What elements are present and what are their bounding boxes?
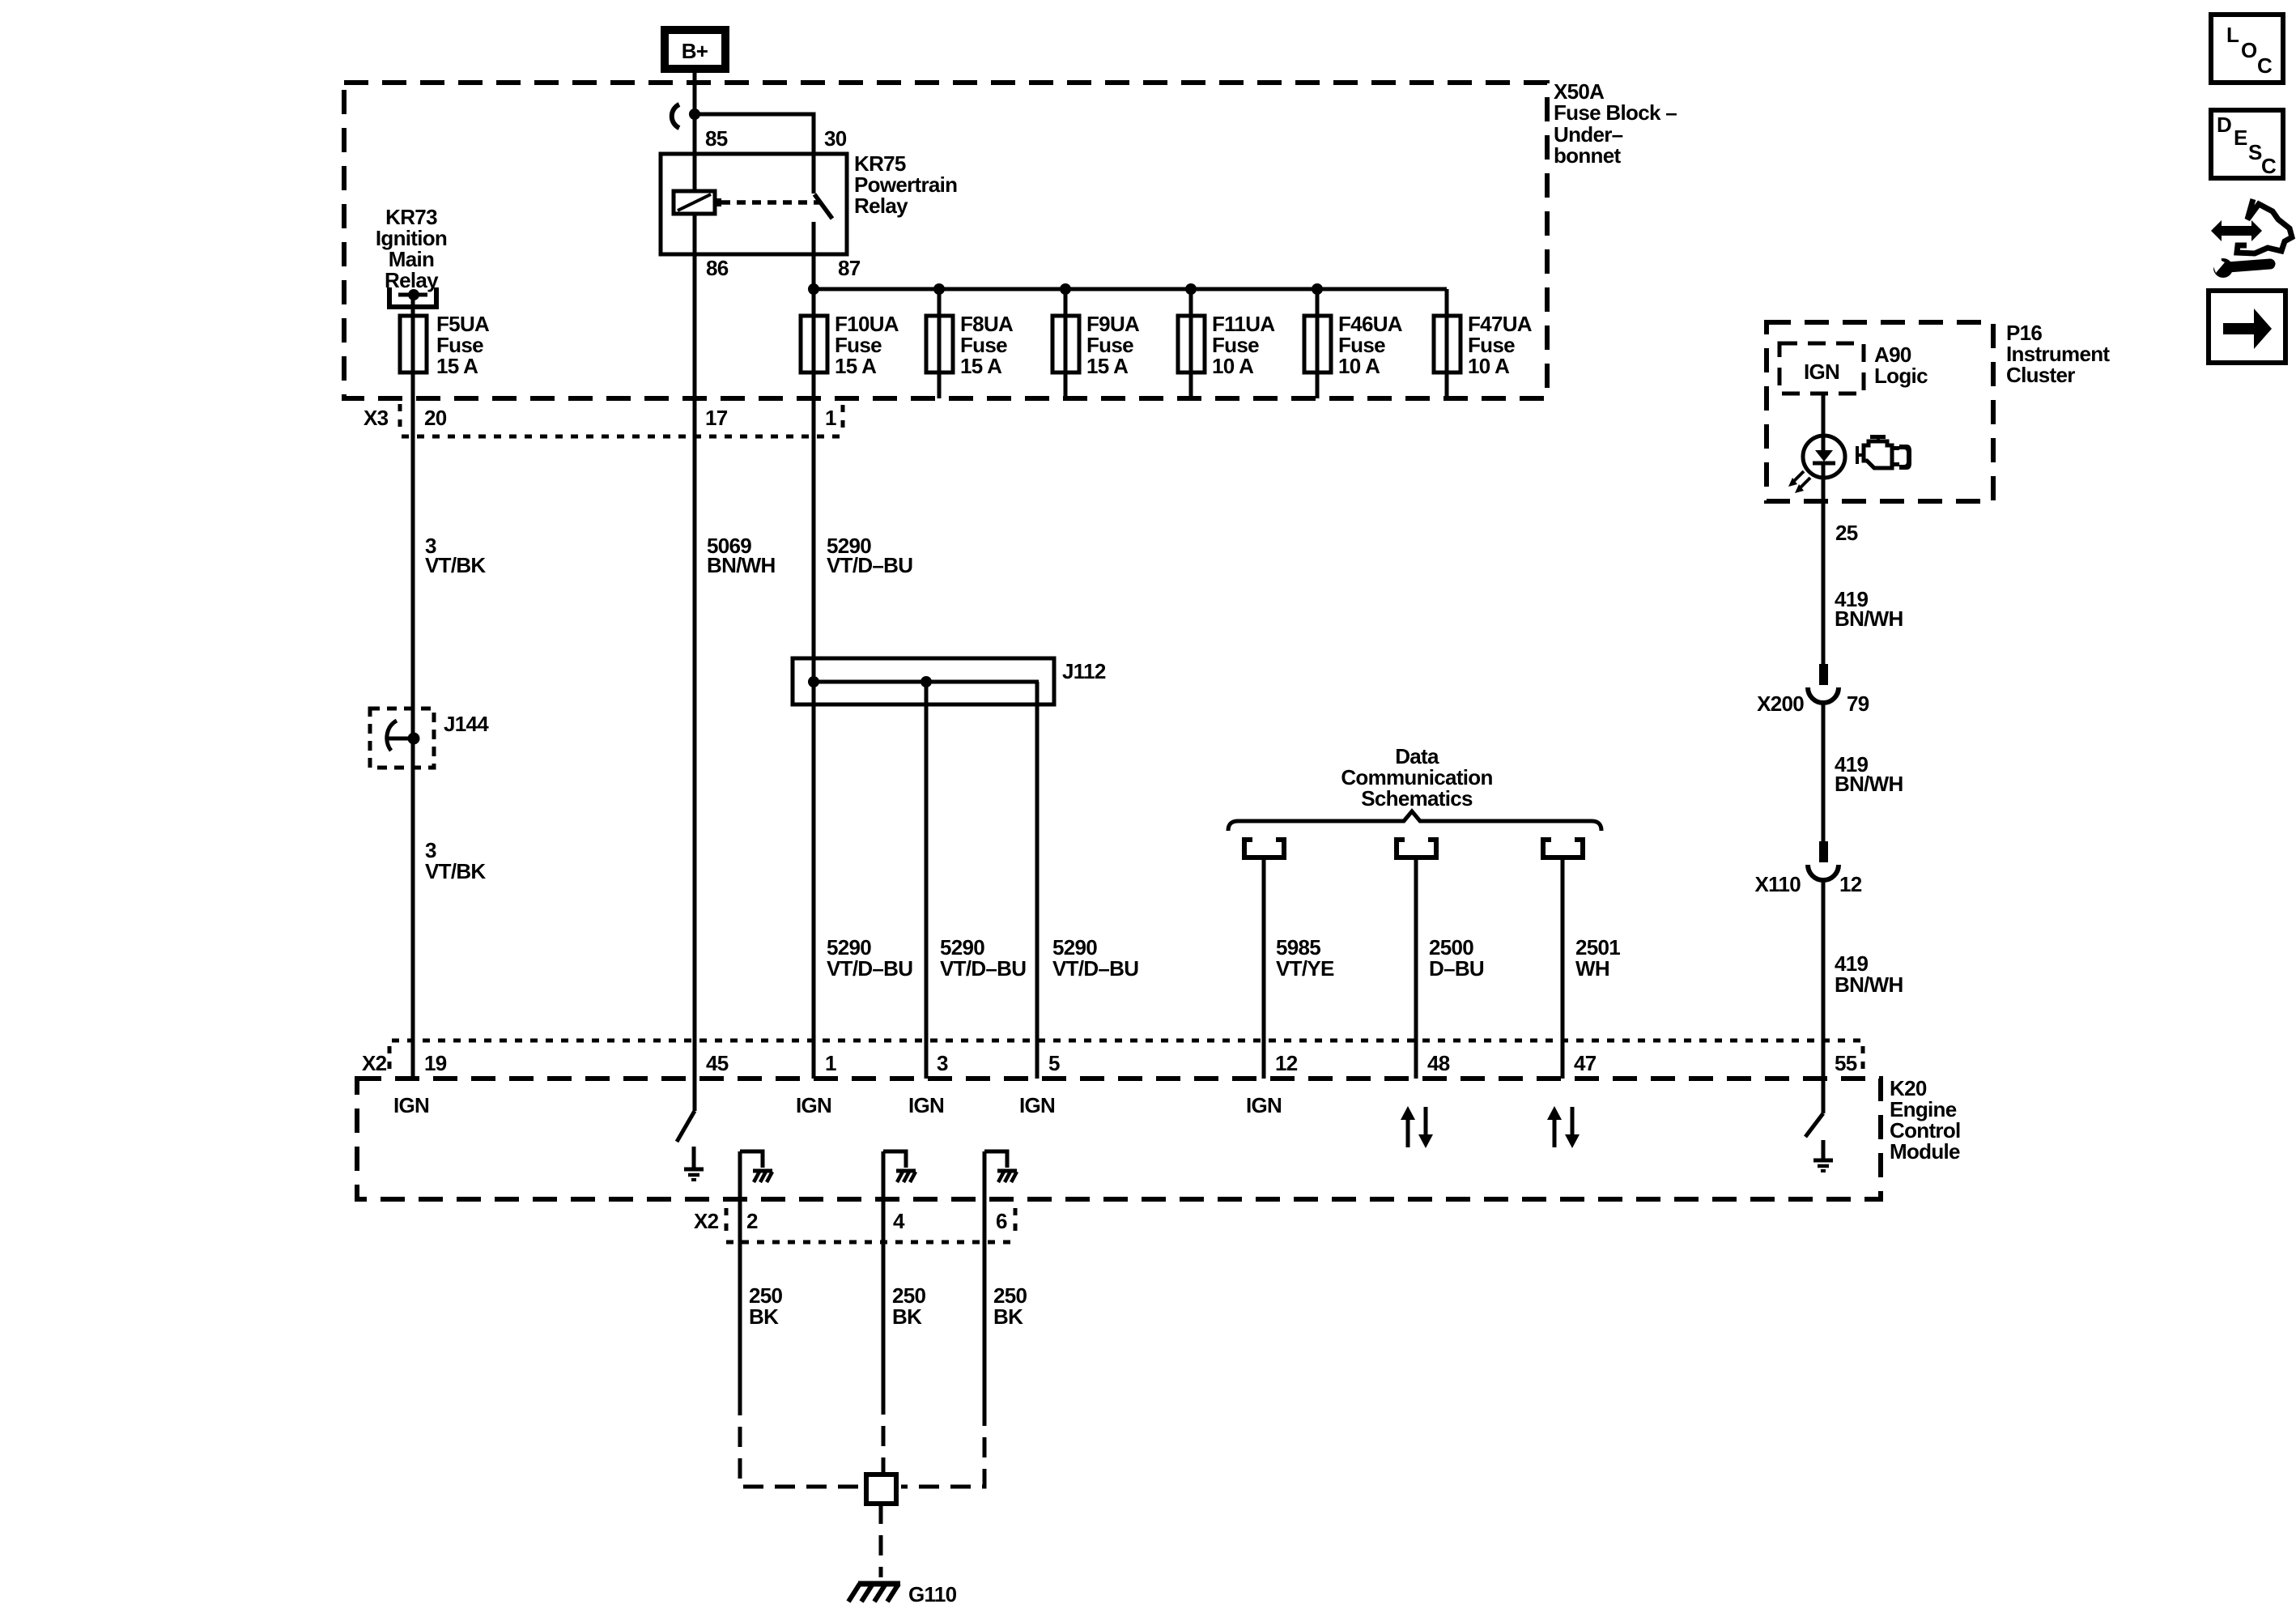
brace for data communication schematics xyxy=(1228,811,1601,831)
ground G110 xyxy=(848,1584,900,1602)
svg-text:VT/D–BU: VT/D–BU xyxy=(827,553,912,577)
engine icon (MIL) xyxy=(1856,435,1911,470)
label K20 Engine Control Module xyxy=(1890,1076,1961,1164)
dashed ground run pin4 xyxy=(882,1394,886,1472)
svg-text:C: C xyxy=(2261,154,2277,178)
wire KR73 to fuse F5UA and down to pin 19 xyxy=(411,295,415,1079)
LOC icon box xyxy=(2211,15,2283,83)
DESC icon box xyxy=(2211,110,2283,178)
svg-text:L: L xyxy=(2226,23,2239,47)
svg-text:Fuse Block –: Fuse Block – xyxy=(1554,100,1677,125)
svg-text:VT/BK: VT/BK xyxy=(425,553,486,577)
bidirectional data arrows pin 48 xyxy=(1401,1106,1433,1148)
svg-text:VT/D–BU: VT/D–BU xyxy=(1052,956,1138,981)
svg-text:10 A: 10 A xyxy=(1468,354,1510,378)
svg-text:20: 20 xyxy=(424,406,447,430)
svg-text:BN/WH: BN/WH xyxy=(1835,972,1903,997)
off-page connector pin 48 xyxy=(1397,837,1436,857)
svg-text:45: 45 xyxy=(706,1051,729,1075)
Data Communication Schematics label xyxy=(1341,744,1492,811)
connector repair icon xyxy=(2209,199,2292,278)
svg-text:Relay: Relay xyxy=(385,268,439,292)
svg-text:IGN: IGN xyxy=(908,1093,944,1117)
svg-text:X200: X200 xyxy=(1757,691,1804,716)
dashed wire to G110 xyxy=(879,1504,883,1577)
wire 5290 VT/D-BU label pin1 xyxy=(827,935,912,981)
svg-text:E: E xyxy=(2234,126,2247,150)
wire IGN to LED xyxy=(1822,394,1826,450)
internal ground at pin 45 xyxy=(684,1147,704,1180)
battery feed B+ symbol xyxy=(665,30,725,69)
relay KR75 box xyxy=(661,154,847,254)
wire 5069 BN/WH label xyxy=(707,534,776,577)
svg-text:IGN: IGN xyxy=(1019,1093,1055,1117)
LED indicator lamp xyxy=(1803,436,1845,478)
svg-text:X3: X3 xyxy=(364,406,389,430)
wire 86 from relay down through pin 17 and pin 45 xyxy=(693,214,697,1111)
svg-text:O: O xyxy=(2241,38,2257,62)
svg-text:Module: Module xyxy=(1890,1139,1960,1164)
in-line connector X200 xyxy=(1808,664,1839,703)
relay KR75 switch contact xyxy=(814,154,832,254)
wire branch to relay pin 30 xyxy=(695,114,814,154)
svg-text:C: C xyxy=(2257,53,2273,78)
fuse F11UA xyxy=(1178,289,1205,398)
wire X110 to pin 55 xyxy=(1822,880,1826,1079)
splice box to G110 xyxy=(866,1474,896,1504)
wire 419 BN/WH label middle xyxy=(1835,752,1903,796)
junction node below B+ xyxy=(689,109,700,120)
instrument cluster P16 dashed box xyxy=(1767,322,1993,501)
wire 250 BK label pin4 xyxy=(892,1283,926,1329)
svg-text:25: 25 xyxy=(1835,521,1858,545)
svg-text:VT/D–BU: VT/D–BU xyxy=(940,956,1026,981)
svg-text:2: 2 xyxy=(746,1209,758,1233)
svg-text:VT/BK: VT/BK xyxy=(425,859,486,883)
svg-text:10 A: 10 A xyxy=(1212,354,1254,378)
relay KR75 dashed actuation link xyxy=(721,200,820,205)
svg-text:30: 30 xyxy=(824,126,847,151)
svg-text:B+: B+ xyxy=(682,39,708,63)
svg-text:BN/WH: BN/WH xyxy=(1835,772,1903,796)
svg-text:12: 12 xyxy=(1839,872,1862,896)
svg-text:15 A: 15 A xyxy=(436,354,478,378)
wire 419 BN/WH label lower xyxy=(1835,951,1903,997)
internal ground at pin 55 xyxy=(1813,1140,1833,1171)
wire 2501 to pin 47 xyxy=(1561,857,1565,1079)
svg-text:1: 1 xyxy=(825,406,836,430)
svg-text:bonnet: bonnet xyxy=(1554,143,1621,168)
svg-text:6: 6 xyxy=(996,1209,1007,1233)
wire 5290 VT/D-BU label upper xyxy=(827,534,912,577)
svg-text:3: 3 xyxy=(937,1051,948,1075)
svg-text:IGN: IGN xyxy=(1804,360,1839,384)
svg-text:BK: BK xyxy=(749,1304,779,1329)
svg-text:48: 48 xyxy=(1427,1051,1450,1075)
svg-text:X2: X2 xyxy=(362,1051,387,1075)
svg-text:D: D xyxy=(2217,113,2231,137)
svg-text:85: 85 xyxy=(705,126,728,151)
svg-text:J112: J112 xyxy=(1062,659,1106,683)
label KR73 Ignition Main Relay xyxy=(376,205,447,292)
dashed ground run pin6 xyxy=(901,1406,984,1487)
label X50A Fuse Block Underbonnet xyxy=(1554,79,1677,168)
ground wire pin 4 with hook xyxy=(883,1151,906,1394)
wire 250 BK label pin2 xyxy=(749,1283,783,1329)
fuse F47UA xyxy=(1434,289,1461,398)
label F11UA xyxy=(1212,312,1275,378)
relay KR75 coil xyxy=(674,191,721,214)
svg-text:VT/D–BU: VT/D–BU xyxy=(827,956,912,981)
wire LED down to pin 25 xyxy=(1822,465,1826,664)
bidirectional data arrows pin 47 xyxy=(1547,1106,1580,1148)
fuse F10UA xyxy=(801,316,827,372)
wire 3 VT/BK label upper xyxy=(425,534,486,577)
crossover hook at B+ junction xyxy=(672,104,679,128)
fuse block X50A dashed box xyxy=(344,83,1547,398)
wire 2501 WH label xyxy=(1575,935,1620,981)
splice J144 xyxy=(370,709,434,768)
svg-text:1: 1 xyxy=(825,1051,836,1075)
svg-text:BK: BK xyxy=(892,1304,922,1329)
fuse F5UA xyxy=(400,316,427,372)
svg-text:X110: X110 xyxy=(1755,872,1801,896)
off-page connector pin 47 xyxy=(1543,837,1583,857)
ECM K20 dashed box xyxy=(357,1079,1881,1199)
svg-text:87: 87 xyxy=(838,256,861,280)
label F9UA xyxy=(1086,312,1140,378)
svg-text:4: 4 xyxy=(893,1209,905,1233)
svg-text:79: 79 xyxy=(1847,691,1869,716)
label A90 Logic xyxy=(1874,343,1928,388)
wire F10UA down to pin 1 xyxy=(812,372,816,1079)
svg-text:10 A: 10 A xyxy=(1338,354,1380,378)
svg-text:15 A: 15 A xyxy=(1086,354,1129,378)
svg-text:17: 17 xyxy=(705,406,728,430)
svg-text:S: S xyxy=(2248,140,2262,164)
svg-text:VT/YE: VT/YE xyxy=(1276,956,1334,981)
svg-text:IGN: IGN xyxy=(393,1093,429,1117)
internal switch at pin 45 xyxy=(677,1111,695,1142)
connector X3 strip xyxy=(400,404,843,436)
svg-text:X2: X2 xyxy=(694,1209,719,1233)
dashed ground run pin2 xyxy=(740,1395,861,1487)
wire B+ down to relay coil xyxy=(693,73,697,191)
LED emission arrows xyxy=(1788,471,1810,493)
ground wire pin 6 with hook xyxy=(984,1151,1007,1406)
fuse F46UA xyxy=(1304,289,1331,398)
svg-text:D–BU: D–BU xyxy=(1429,956,1484,981)
in-line connector X110 xyxy=(1808,841,1839,880)
connector X2 bottom strip xyxy=(726,1208,1015,1242)
svg-text:86: 86 xyxy=(706,256,729,280)
label F46UA xyxy=(1338,312,1403,378)
svg-text:47: 47 xyxy=(1574,1051,1597,1075)
svg-text:19: 19 xyxy=(424,1051,447,1075)
svg-text:IGN: IGN xyxy=(796,1093,831,1117)
svg-text:G110: G110 xyxy=(908,1582,957,1606)
svg-text:Cluster: Cluster xyxy=(2006,363,2075,387)
label F8UA xyxy=(960,312,1014,378)
wire 3 VT/BK label lower xyxy=(425,838,486,883)
relay KR73 contact symbol xyxy=(389,287,436,307)
label F5UA xyxy=(436,312,490,378)
svg-text:Relay: Relay xyxy=(854,194,908,218)
connector X2 top strip xyxy=(389,1040,1863,1075)
splice J112 xyxy=(793,658,1054,704)
IGN feed dashed box xyxy=(1779,343,1864,394)
svg-text:WH: WH xyxy=(1575,956,1609,981)
label F10UA xyxy=(835,312,899,378)
wire 5985 to pin 12 xyxy=(1262,857,1266,1079)
svg-text:15 A: 15 A xyxy=(835,354,877,378)
wire 2500 D-BU label xyxy=(1429,935,1484,981)
fuse bus from relay pin 87 xyxy=(812,254,816,398)
wire X200 to X110 xyxy=(1822,703,1826,841)
forward arrow icon box xyxy=(2209,291,2285,363)
fuse F9UA xyxy=(1052,289,1079,398)
bus junction nodes xyxy=(808,283,1323,295)
chassis ground at pin 2 xyxy=(753,1171,772,1182)
wire J112 to pin 5 xyxy=(1035,682,1040,1079)
chassis ground at pin 4 xyxy=(896,1171,916,1182)
chassis ground at pin 6 xyxy=(997,1171,1017,1182)
wire 5290 VT/D-BU label pin3 xyxy=(940,935,1026,981)
svg-text:55: 55 xyxy=(1835,1051,1857,1075)
wire 5985 VT/YE label xyxy=(1276,935,1334,981)
svg-text:15 A: 15 A xyxy=(960,354,1002,378)
label P16 Instrument Cluster xyxy=(2006,321,2110,387)
wire 250 BK label pin6 xyxy=(993,1283,1027,1329)
label KR75 Powertrain Relay xyxy=(854,151,957,218)
internal switch at pin 55 xyxy=(1805,1079,1823,1137)
svg-text:BN/WH: BN/WH xyxy=(1835,606,1903,631)
svg-text:5: 5 xyxy=(1048,1051,1060,1075)
ground wire pin 2 with hook xyxy=(740,1151,763,1395)
svg-text:BN/WH: BN/WH xyxy=(707,553,776,577)
svg-text:J144: J144 xyxy=(444,712,489,736)
fuse F8UA xyxy=(926,289,953,398)
svg-text:Logic: Logic xyxy=(1874,364,1928,388)
wire 5290 VT/D-BU label pin5 xyxy=(1052,935,1138,981)
svg-text:Schematics: Schematics xyxy=(1361,786,1473,811)
wire 2500 to pin 48 xyxy=(1414,857,1418,1079)
wire 419 BN/WH label upper xyxy=(1835,587,1903,631)
off-page connector pin 12 xyxy=(1244,837,1284,857)
svg-text:IGN: IGN xyxy=(1246,1093,1282,1117)
label F47UA xyxy=(1468,312,1533,378)
wire J112 to pin 3 xyxy=(925,682,929,1079)
svg-text:12: 12 xyxy=(1275,1051,1298,1075)
svg-text:BK: BK xyxy=(993,1304,1023,1329)
